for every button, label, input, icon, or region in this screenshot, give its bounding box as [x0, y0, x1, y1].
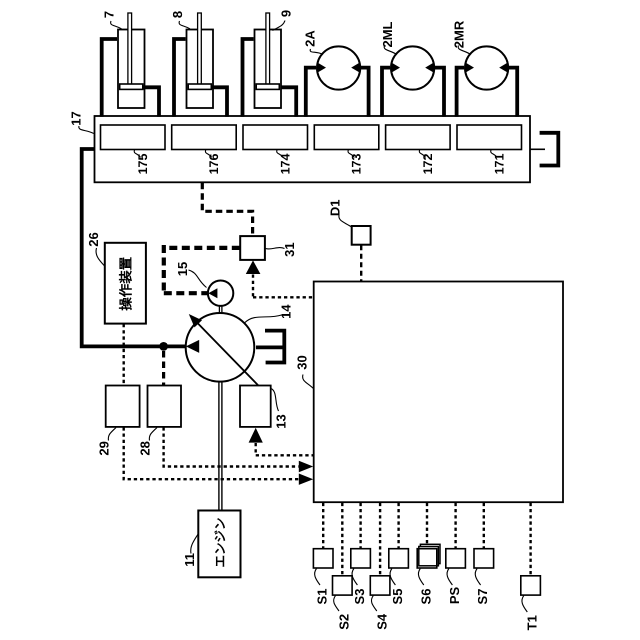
svg-text:175: 175 [136, 154, 150, 175]
shaft from engine 11 to pump 14 [218, 382, 220, 511]
wire: signal line sensor S7 to controller [483, 503, 485, 549]
pilot pump 15 circle [208, 281, 233, 306]
leader for label 15 [189, 270, 207, 288]
leader for label S7 [475, 569, 480, 586]
wire: signal line sensor S1 to controller [322, 503, 324, 549]
svg-text:17: 17 [69, 111, 84, 125]
tank symbol right of pump 14 [267, 331, 284, 363]
wire: supply line cylinder 9 rod side [281, 87, 297, 117]
wire: pump 14 to tank symbol [256, 345, 284, 349]
wire: supply line cylinder 7 head side [102, 39, 117, 117]
cylinder 7 piston [120, 84, 143, 89]
svg-text:28: 28 [138, 441, 153, 455]
wire: signal line sensor S3 to controller [359, 503, 361, 549]
regulator 13 box [240, 386, 271, 427]
leader for label 172 [419, 150, 425, 158]
motor 2ML [391, 46, 434, 89]
valve 175 [101, 125, 166, 150]
cylinder 9 piston [256, 84, 279, 89]
sensor S3 box [351, 549, 371, 568]
motor 2A [317, 46, 360, 89]
valve 173 [314, 125, 379, 150]
controller 30 box [314, 282, 563, 503]
sensor D1 box [352, 226, 371, 245]
wire: motor 2ML left port line [382, 68, 390, 117]
svg-text:8: 8 [170, 11, 185, 18]
wire: signal line from controller 30 to valve 31 [253, 275, 314, 298]
motor 2ML left flow arrow [391, 62, 400, 72]
svg-text:176: 176 [207, 154, 221, 175]
sensor S6 box stack (middle) [419, 547, 439, 566]
leader for label 17 [79, 126, 94, 134]
valve 172 [386, 125, 451, 150]
leader for label 14 [245, 315, 282, 323]
motor 2A left flow arrow [317, 62, 326, 72]
sensor S7 box [474, 549, 494, 568]
sensor S6 box stack (back) [420, 544, 440, 563]
leader for label 175 [134, 150, 140, 158]
leader for label S6 [418, 569, 423, 586]
solenoid valve 31 box [240, 236, 265, 260]
svg-text:13: 13 [274, 414, 289, 428]
wire: pilot branch from junction down to box 28 [162, 351, 165, 385]
svg-text:S5: S5 [390, 589, 405, 605]
motor 2MR right flow arrow [499, 62, 508, 72]
motor 2MR left flow arrow [465, 62, 474, 72]
arrow into regulator 13 from controller signal [249, 428, 263, 443]
motor 2A right flow arrow [351, 62, 360, 72]
operation device 26 box [105, 243, 146, 324]
svg-text:26: 26 [86, 232, 101, 246]
wire: supply line cylinder 9 head side [243, 39, 254, 117]
wire: tank return line from valve block [531, 148, 546, 150]
leader for label 30 [303, 375, 314, 389]
pump 14 swash-plate arrow line [190, 316, 258, 386]
svg-text:2ML: 2ML [380, 21, 395, 47]
leader for label 13 [271, 389, 279, 412]
valve 176 [172, 125, 237, 150]
leader for label 28 [149, 428, 157, 441]
box 29 [106, 386, 140, 427]
leader for label 31 [266, 248, 285, 249]
wire: supply line cylinder 7 rod side [144, 87, 160, 117]
svg-text:操作装置: 操作装置 [119, 256, 134, 310]
wire: motor 2A right port line [361, 68, 369, 117]
wire: signal line sensor S5 to controller [397, 503, 399, 549]
leader for label 171 [491, 150, 497, 158]
sensor S2 box [333, 576, 353, 595]
wire: pilot line from valve block to valve 31 [202, 183, 252, 235]
sensor PS box [446, 549, 466, 568]
svg-text:173: 173 [350, 154, 364, 175]
svg-text:エンジン: エンジン [213, 517, 227, 567]
svg-text:2MR: 2MR [452, 20, 467, 48]
arrow into valve 31 from controller signal [246, 260, 261, 274]
svg-text:S1: S1 [315, 589, 330, 605]
wire: signal line from box 28 to controller 30 [164, 427, 299, 466]
wire: supply line cylinder 8 rod side [212, 87, 227, 117]
wire: signal line from box 29 to controller 30 [124, 427, 299, 479]
svg-text:S4: S4 [375, 613, 390, 630]
valve 171 [457, 125, 522, 150]
svg-text:S7: S7 [475, 589, 490, 605]
svg-text:172: 172 [421, 154, 435, 175]
wire: supply line cylinder 8 head side [174, 39, 186, 117]
svg-text:D1: D1 [328, 199, 343, 216]
sensor T1 box [521, 576, 541, 595]
wire: motor 2ML right port line [435, 68, 444, 117]
leader for label 8 [179, 21, 190, 29]
leader for label S4 [371, 596, 376, 611]
leader for label 174 [277, 150, 283, 158]
wire: signal line from controller 30 to regulator 13 [256, 443, 314, 455]
shaft between pilot pump 15 and pump 14 [218, 306, 220, 314]
svg-text:15: 15 [175, 262, 190, 276]
wire: signal line sensor S2 to controller [341, 503, 343, 576]
svg-text:14: 14 [279, 304, 294, 319]
cylinder 7 rod [128, 13, 132, 85]
leader for label 2ML [384, 46, 397, 55]
leader for label T1 [522, 596, 527, 612]
pump 14 main circle [186, 313, 255, 382]
cylinder 9 rod [266, 13, 270, 85]
arrow into controller 30 from box 29 signal [299, 474, 313, 485]
svg-text:S6: S6 [419, 589, 434, 605]
svg-text:171: 171 [492, 154, 506, 175]
leader for label 9 [273, 21, 286, 31]
box 28 [148, 386, 182, 427]
wire: motor 2MR right port line [509, 68, 517, 117]
leader for label 173 [348, 150, 354, 158]
svg-text:7: 7 [102, 11, 117, 18]
sensor S4 box [370, 576, 390, 595]
leader for label PS [447, 569, 452, 586]
leader for label 7 [111, 21, 122, 29]
arrow into controller 30 from box 28 signal [299, 461, 313, 472]
valve 174 [243, 125, 308, 150]
wire: motor 2A left port line [306, 68, 316, 117]
wire: main pump discharge line to valve block [82, 149, 186, 346]
svg-text:S2: S2 [337, 614, 352, 630]
sensor S6 box (front) [417, 549, 437, 568]
leader for label 176 [205, 150, 211, 158]
svg-text:31: 31 [282, 242, 297, 256]
leader for label S3 [352, 569, 357, 586]
leader for label D1 [339, 215, 352, 227]
wire: signal line sensor S6 to controller [426, 503, 428, 544]
cylinder 7 body [118, 30, 145, 109]
svg-text:2A: 2A [303, 30, 318, 47]
cylinder 8 body [187, 30, 214, 109]
leader for label S5 [390, 569, 395, 586]
tank symbol right of valve block [542, 133, 559, 166]
leader for label 11 [191, 534, 198, 554]
pump 14 swash-plate arrowhead [189, 314, 202, 327]
svg-text:11: 11 [182, 553, 197, 567]
engine 11 box [198, 511, 240, 578]
leader for label 26 [96, 248, 104, 266]
motor 2ML right flow arrow [425, 62, 434, 72]
leader for label 29 [108, 428, 116, 441]
motor 2MR [465, 46, 508, 89]
wire: pilot line from pump 15 to valve 31 [164, 246, 240, 250]
leader for label S1 [315, 569, 320, 586]
leader for label 2MR [458, 46, 471, 55]
svg-text:S3: S3 [352, 589, 367, 605]
leader for label 2A [310, 49, 323, 55]
cylinder 8 rod [198, 13, 202, 85]
cylinder 8 piston [188, 84, 211, 89]
wire: motor 2MR left port line [457, 68, 464, 117]
svg-text:174: 174 [278, 154, 292, 175]
svg-text:30: 30 [295, 355, 310, 369]
sensor S5 box [389, 549, 409, 568]
leader for label S2 [334, 596, 339, 611]
wire: signal line sensor T1 to controller [529, 503, 531, 576]
valve block 17 outline [95, 116, 531, 182]
svg-text:29: 29 [97, 441, 112, 455]
node: junction on pump discharge line [159, 342, 168, 351]
svg-text:PS: PS [447, 587, 462, 605]
sensor S1 box [313, 549, 333, 568]
wire: signal line from D1 to controller 30 [360, 245, 362, 281]
wire: signal line sensor PS to controller [454, 503, 456, 549]
svg-text:9: 9 [279, 10, 294, 17]
pilot pump 15 discharge arrow [208, 288, 217, 298]
wire: signal line from operation device 26 down to box 29 [122, 324, 124, 385]
svg-text:T1: T1 [525, 615, 540, 630]
wire: signal line sensor S4 to controller [379, 503, 381, 576]
cylinder 9 body [255, 30, 282, 109]
pump 14 discharge flow arrow [186, 340, 199, 353]
